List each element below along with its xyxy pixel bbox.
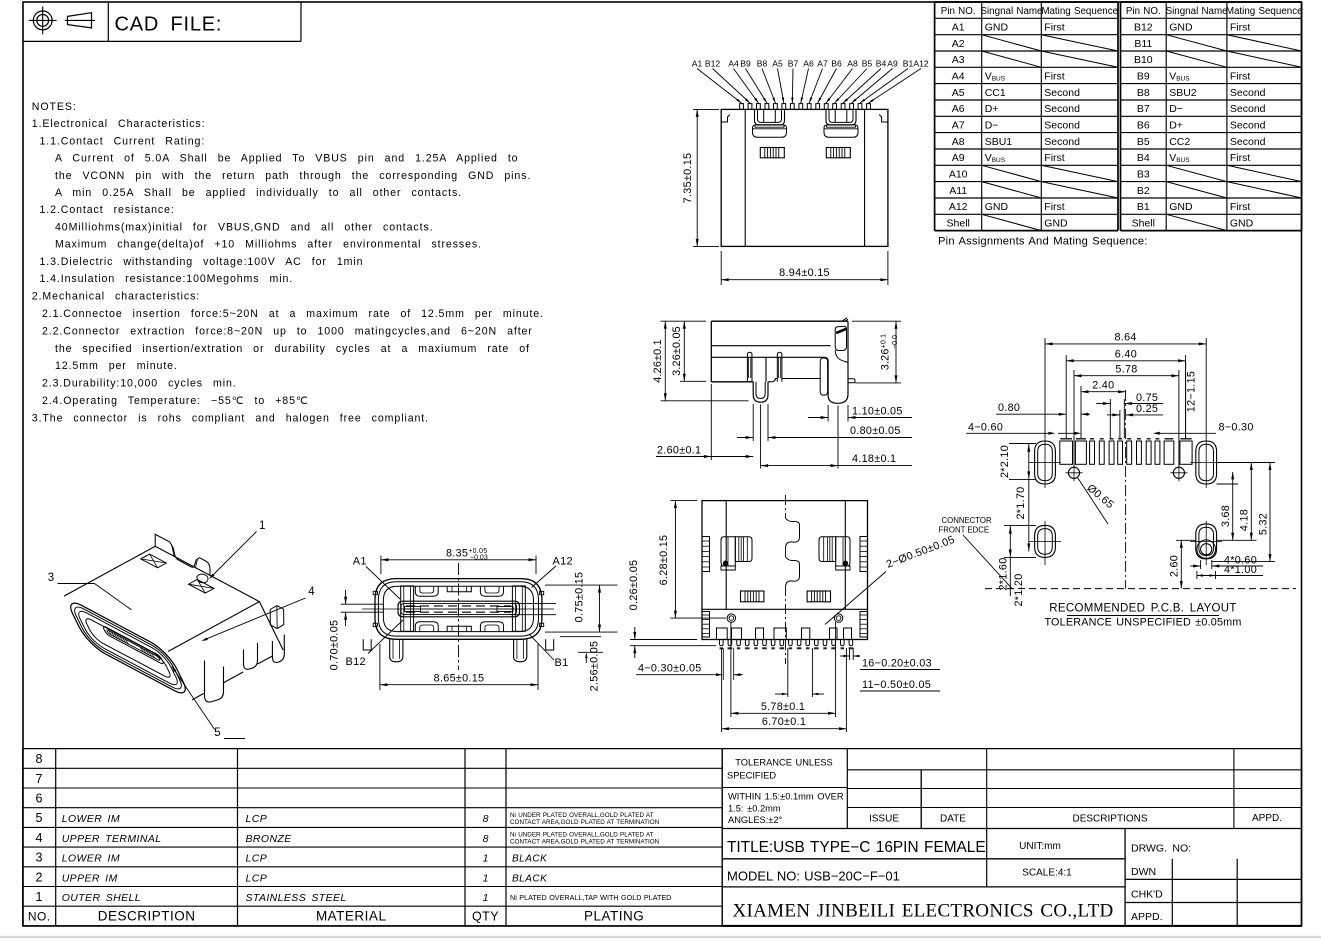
svg-text:A6: A6	[952, 103, 965, 115]
svg-text:2.60±0.1: 2.60±0.1	[657, 445, 701, 457]
svg-text:1.3.Dielectric withstanding: 1.3.Dielectric withstanding voltage:100V…	[40, 256, 364, 268]
svg-text:2.4.Operating Temperature: −5: 2.4.Operating Temperature: −55℃ to +85℃	[42, 395, 309, 407]
svg-text:D+: D+	[985, 103, 999, 115]
svg-text:NOTES:: NOTES:	[32, 101, 77, 113]
svg-text:First: First	[1044, 70, 1064, 82]
svg-text:A9: A9	[952, 152, 965, 164]
svg-text:1: 1	[483, 892, 489, 904]
svg-text:LCP: LCP	[246, 813, 268, 825]
svg-text:DESCRIPTION: DESCRIPTION	[98, 909, 196, 924]
svg-text:Pin Assignments And Mating: Pin Assignments And Mating Sequence:	[938, 236, 1148, 248]
svg-text:7: 7	[36, 772, 43, 786]
svg-text:UPPER TERMINAL: UPPER TERMINAL	[62, 833, 162, 845]
svg-text:2*1.70: 2*1.70	[1015, 486, 1027, 519]
svg-text:First: First	[1230, 152, 1250, 164]
svg-text:8: 8	[36, 752, 43, 766]
svg-text:XIAMEN JINBEILI ELECTRONICS CO: XIAMEN JINBEILI ELECTRONICS CO.,LTD	[732, 901, 1113, 922]
svg-text:A7: A7	[817, 59, 828, 69]
svg-text:CC1: CC1	[985, 87, 1006, 99]
svg-text:LOWER IM: LOWER IM	[62, 853, 120, 865]
svg-text:Singnal Name: Singnal Name	[1166, 6, 1229, 17]
svg-text:LCP: LCP	[246, 853, 268, 865]
svg-text:MODEL NO: USB−20C−F−01: MODEL NO: USB−20C−F−01	[727, 869, 900, 884]
svg-text:A12: A12	[913, 59, 929, 69]
svg-text:UNIT:mm: UNIT:mm	[1019, 841, 1061, 852]
svg-text:First: First	[1044, 201, 1064, 213]
svg-text:Second: Second	[1230, 119, 1266, 131]
svg-text:1.2.Contact resistance:: 1.2.Contact resistance:	[40, 204, 175, 216]
svg-text:SCALE:4:1: SCALE:4:1	[1022, 868, 1072, 879]
svg-text:Second: Second	[1044, 87, 1080, 99]
svg-text:DRWG. NO:: DRWG. NO:	[1131, 843, 1191, 855]
svg-text:CONTACT AREA,GOLD PLATED AT: CONTACT AREA,GOLD PLATED AT TERMINATION	[510, 839, 660, 846]
svg-text:−0.0: −0.0	[892, 335, 899, 349]
svg-text:2*1.20: 2*1.20	[1013, 573, 1025, 606]
svg-text:Mating Sequence: Mating Sequence	[1041, 6, 1118, 17]
svg-text:B12: B12	[346, 656, 366, 668]
svg-text:8: 8	[483, 813, 489, 825]
svg-text:16−0.20±0.03: 16−0.20±0.03	[862, 658, 932, 670]
svg-text:40Milliohms(max)initial for: 40Milliohms(max)initial for VBUS,GND and…	[55, 221, 434, 233]
svg-text:A3: A3	[952, 54, 965, 66]
svg-text:A7: A7	[952, 119, 965, 131]
svg-text:B1: B1	[903, 59, 914, 69]
svg-text:3: 3	[36, 851, 43, 865]
svg-text:2.60: 2.60	[1169, 555, 1181, 577]
svg-text:B12: B12	[705, 59, 721, 69]
svg-text:Second: Second	[1044, 119, 1080, 131]
svg-text:D−: D−	[985, 119, 999, 131]
svg-text:the specified insertion/extr: the specified insertion/extration or dur…	[55, 343, 530, 355]
svg-text:B11: B11	[1134, 38, 1152, 50]
svg-text:6.40: 6.40	[1115, 349, 1137, 361]
svg-text:Second: Second	[1044, 136, 1080, 148]
svg-text:A9: A9	[887, 59, 898, 69]
svg-text:0.70±0.05: 0.70±0.05	[329, 620, 341, 671]
svg-text:4.18: 4.18	[1239, 509, 1251, 531]
svg-text:5: 5	[36, 811, 43, 825]
svg-text:Pin NO.: Pin NO.	[941, 6, 976, 17]
svg-text:B7: B7	[788, 59, 799, 69]
svg-text:Shell: Shell	[1132, 217, 1155, 229]
svg-text:1.1.Contact Current Rating:: 1.1.Contact Current Rating:	[40, 135, 206, 147]
svg-text:B4: B4	[876, 59, 887, 69]
svg-text:8−0.30: 8−0.30	[1219, 421, 1254, 433]
svg-text:First: First	[1230, 201, 1250, 213]
svg-text:1.Electronical Characteristic: 1.Electronical Characteristics:	[32, 118, 206, 130]
svg-text:0.75±0.15: 0.75±0.15	[574, 572, 586, 623]
svg-text:B3: B3	[1137, 168, 1150, 180]
svg-text:12.5mm per minute.: 12.5mm per minute.	[55, 360, 178, 372]
svg-text:GND: GND	[985, 201, 1009, 213]
svg-text:A10: A10	[949, 168, 968, 180]
svg-text:A2: A2	[952, 38, 965, 50]
svg-text:B1: B1	[555, 657, 569, 669]
svg-text:BLACK: BLACK	[512, 854, 548, 865]
svg-text:CONTACT AREA,GOLD PLATED AT: CONTACT AREA,GOLD PLATED AT TERMINATION	[510, 819, 660, 826]
svg-text:A5: A5	[772, 59, 783, 69]
svg-text:ISSUE: ISSUE	[869, 814, 899, 825]
svg-text:SBU2: SBU2	[1169, 87, 1197, 99]
svg-text:8.94±0.15: 8.94±0.15	[779, 267, 830, 279]
svg-text:4: 4	[308, 586, 315, 598]
svg-text:8: 8	[483, 833, 489, 845]
svg-text:B9: B9	[740, 59, 751, 69]
svg-text:STAINLESS STEEL: STAINLESS STEEL	[246, 892, 347, 904]
svg-text:DATE: DATE	[940, 814, 966, 825]
svg-text:A12: A12	[949, 201, 968, 213]
svg-text:2.2.Connector extraction for: 2.2.Connector extraction force:8~20N up …	[42, 325, 533, 337]
svg-text:2.3.Durability:10,000 cycles: 2.3.Durability:10,000 cycles min.	[42, 378, 237, 390]
svg-text:NO.: NO.	[28, 910, 51, 924]
svg-text:DESCRIPTIONS: DESCRIPTIONS	[1072, 814, 1147, 825]
svg-text:First: First	[1044, 152, 1064, 164]
svg-text:Pin NO.: Pin NO.	[1126, 6, 1161, 17]
svg-text:A Current of 5.0A Shall b: A Current of 5.0A Shall be Applied To VB…	[55, 153, 518, 165]
svg-text:B12: B12	[1134, 22, 1153, 34]
svg-text:CAD FILE:: CAD FILE:	[115, 14, 223, 36]
svg-text:2*2.10: 2*2.10	[999, 445, 1011, 478]
svg-text:B5: B5	[1137, 136, 1150, 148]
svg-text:7.35±0.15: 7.35±0.15	[682, 153, 694, 204]
svg-text:MATERIAL: MATERIAL	[316, 909, 387, 924]
svg-text:Second: Second	[1230, 87, 1266, 99]
svg-text:1.5: ±0.2mm: 1.5: ±0.2mm	[728, 804, 781, 814]
svg-text:B1: B1	[1137, 201, 1150, 213]
svg-text:3.The connector is rohs co: 3.The connector is rohs compliant and ha…	[32, 412, 429, 424]
svg-text:2.Mechanical characteristics:: 2.Mechanical characteristics:	[32, 290, 200, 302]
svg-text:B8: B8	[1137, 87, 1150, 99]
svg-text:Ni PLATED OVERALL,TAP WITH: Ni PLATED OVERALL,TAP WITH GOLD PLATED	[510, 893, 671, 902]
svg-text:LOWER IM: LOWER IM	[62, 813, 120, 825]
svg-text:CHK'D: CHK'D	[1131, 889, 1163, 901]
svg-text:3.26±0.05: 3.26±0.05	[671, 326, 683, 376]
svg-text:5: 5	[214, 727, 221, 739]
svg-text:Singnal Name: Singnal Name	[980, 6, 1043, 17]
svg-text:SPECIFIED: SPECIFIED	[727, 771, 776, 781]
svg-text:Second: Second	[1230, 136, 1266, 148]
svg-text:A6: A6	[803, 59, 814, 69]
svg-text:TITLE:USB TYPE−C 16PIN FEMA: TITLE:USB TYPE−C 16PIN FEMALE	[727, 839, 986, 856]
svg-text:4−0.60: 4−0.60	[968, 421, 1003, 433]
svg-text:0.25: 0.25	[1136, 403, 1158, 415]
svg-text:1: 1	[259, 520, 266, 532]
svg-text:1: 1	[36, 890, 43, 904]
svg-text:3.68: 3.68	[1220, 505, 1232, 527]
svg-text:PLATING: PLATING	[584, 909, 644, 924]
svg-text:3: 3	[48, 572, 55, 584]
svg-text:First: First	[1044, 22, 1064, 34]
svg-text:A1: A1	[353, 556, 367, 568]
svg-text:5.78: 5.78	[1115, 364, 1137, 376]
svg-text:B6: B6	[831, 59, 842, 69]
svg-text:A11: A11	[949, 185, 967, 197]
svg-text:TOLERANCE UNLESS: TOLERANCE UNLESS	[735, 758, 832, 768]
svg-text:2.40: 2.40	[1092, 380, 1114, 392]
svg-text:UPPER IM: UPPER IM	[62, 872, 118, 884]
svg-text:6.70±0.1: 6.70±0.1	[762, 716, 806, 728]
svg-text:A12: A12	[553, 556, 573, 568]
svg-text:SBU1: SBU1	[985, 136, 1013, 148]
svg-text:1: 1	[483, 853, 489, 865]
svg-text:APPD.: APPD.	[1131, 911, 1163, 923]
svg-text:A min 0.25A Shall be appl: A min 0.25A Shall be applied individuall…	[55, 187, 462, 199]
svg-text:WITHIN 1.5:±0.1mm OVER: WITHIN 1.5:±0.1mm OVER	[728, 792, 844, 802]
svg-text:B8: B8	[757, 59, 768, 69]
svg-text:APPD.: APPD.	[1252, 813, 1282, 824]
svg-text:12−1.15: 12−1.15	[1186, 371, 1198, 412]
svg-text:2.1.Connectoe insertion forc: 2.1.Connectoe insertion force:5~20N at a…	[42, 308, 544, 320]
svg-text:BLACK: BLACK	[512, 873, 548, 884]
svg-text:8.64: 8.64	[1114, 332, 1136, 344]
svg-text:BRONZE: BRONZE	[246, 833, 293, 845]
svg-text:6.28±0.15: 6.28±0.15	[658, 535, 670, 586]
svg-text:Second: Second	[1044, 103, 1080, 115]
svg-text:4*1.00: 4*1.00	[1224, 564, 1257, 576]
svg-text:LCP: LCP	[246, 872, 268, 884]
svg-text:Ni UNDER PLATED OVERALL,GOL: Ni UNDER PLATED OVERALL,GOLD PLATED AT	[510, 812, 654, 819]
svg-text:B7: B7	[1137, 103, 1150, 115]
svg-text:1.10±0.05: 1.10±0.05	[852, 406, 903, 418]
svg-text:A8: A8	[847, 59, 858, 69]
svg-text:RECOMMENDED P.C.B. LAYOUT: RECOMMENDED P.C.B. LAYOUT	[1049, 603, 1236, 615]
svg-text:FRONT EDCE: FRONT EDCE	[939, 526, 990, 535]
svg-text:B5: B5	[862, 59, 873, 69]
svg-text:A1: A1	[692, 59, 703, 69]
svg-text:GND: GND	[1044, 217, 1068, 229]
svg-text:4−0.30±0.05: 4−0.30±0.05	[638, 663, 702, 675]
svg-text:GND: GND	[985, 22, 1009, 34]
svg-text:11−0.50±0.05: 11−0.50±0.05	[862, 679, 931, 691]
svg-text:5.78±0.1: 5.78±0.1	[761, 701, 805, 713]
svg-text:CC2: CC2	[1169, 136, 1190, 148]
svg-text:DWN: DWN	[1131, 866, 1156, 878]
svg-text:4.26±0.1: 4.26±0.1	[652, 339, 664, 383]
svg-text:−0.03: −0.03	[470, 555, 488, 562]
svg-text:0.80±0.05: 0.80±0.05	[850, 425, 901, 437]
svg-text:A1: A1	[952, 22, 965, 34]
svg-text:GND: GND	[1169, 22, 1193, 34]
svg-text:2: 2	[36, 870, 43, 884]
svg-text:First: First	[1230, 22, 1250, 34]
svg-text:GND: GND	[1230, 217, 1254, 229]
svg-text:B9: B9	[1137, 70, 1150, 82]
svg-text:4: 4	[36, 831, 43, 845]
svg-text:CONNECTOR: CONNECTOR	[942, 516, 992, 525]
svg-text:the VCONN pin with the re: the VCONN pin with the return path throu…	[55, 170, 531, 182]
svg-text:B6: B6	[1137, 119, 1150, 131]
svg-text:Mating Sequence: Mating Sequence	[1226, 6, 1303, 17]
svg-text:0.26±0.05: 0.26±0.05	[628, 560, 640, 611]
svg-text:4.18±0.1: 4.18±0.1	[852, 453, 896, 465]
svg-text:A4: A4	[952, 70, 965, 82]
svg-text:A5: A5	[952, 87, 965, 99]
svg-text:ANGLES:±2°: ANGLES:±2°	[728, 815, 783, 825]
svg-text:0.80: 0.80	[998, 402, 1020, 414]
svg-text:A8: A8	[952, 136, 965, 148]
svg-text:B10: B10	[1134, 54, 1153, 66]
svg-text:0.75: 0.75	[1136, 392, 1158, 404]
svg-text:2.56±0.05: 2.56±0.05	[589, 641, 601, 692]
svg-text:D−: D−	[1169, 103, 1183, 115]
svg-text:Shell: Shell	[947, 217, 970, 229]
svg-text:6: 6	[36, 792, 43, 806]
svg-text:Ni UNDER PLATED OVERALL,GOL: Ni UNDER PLATED OVERALL,GOLD PLATED AT	[510, 832, 654, 839]
svg-text:B2: B2	[1137, 185, 1150, 197]
svg-text:A4: A4	[728, 59, 739, 69]
svg-text:D+: D+	[1169, 119, 1183, 131]
svg-text:5.32: 5.32	[1257, 513, 1269, 535]
svg-text:8.65±0.15: 8.65±0.15	[434, 672, 485, 684]
svg-text:1.4.Insulation resistance:100: 1.4.Insulation resistance:100Megohms min…	[40, 273, 294, 285]
svg-text:B4: B4	[1137, 152, 1150, 164]
svg-text:GND: GND	[1169, 201, 1193, 213]
svg-text:Maximum change(delta)of +10: Maximum change(delta)of +10 Milliohms af…	[55, 239, 482, 251]
svg-text:TOLERANCE UNSPECIFIED ±0.05m: TOLERANCE UNSPECIFIED ±0.05mm	[1044, 617, 1241, 629]
svg-text:First: First	[1230, 70, 1250, 82]
svg-text:1: 1	[483, 872, 489, 884]
svg-text:QTY: QTY	[472, 910, 499, 924]
svg-text:Second: Second	[1230, 103, 1266, 115]
svg-text:OUTER SHELL: OUTER SHELL	[62, 892, 141, 904]
